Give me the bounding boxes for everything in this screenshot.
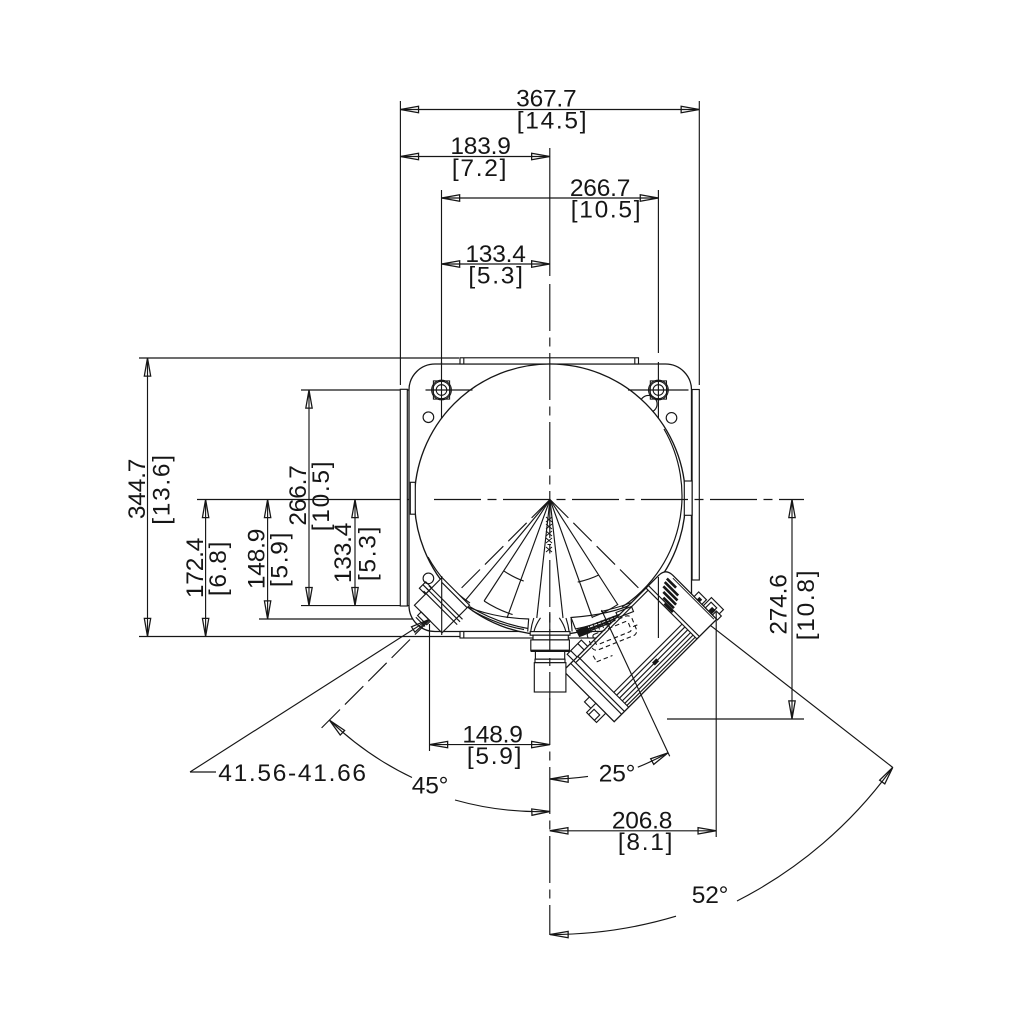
inner arc bottom-left xyxy=(428,557,470,603)
dim 274.6 extension bottom xyxy=(667,718,804,720)
svg-text:[5.9]: [5.9] xyxy=(467,743,523,770)
ray 52deg (from center, to arc) xyxy=(700,617,893,767)
dim 344.7 extension top xyxy=(139,357,459,359)
svg-text:344.7: 344.7 xyxy=(124,459,151,519)
svg-text:[5.3]: [5.3] xyxy=(355,525,382,581)
dim 206.8 extension xyxy=(715,612,717,837)
beam arc right r121 xyxy=(593,604,618,617)
svg-text:[5.3]: [5.3] xyxy=(468,262,524,289)
main circle (rotating head) xyxy=(415,364,686,635)
motor side tab lower-left xyxy=(567,640,588,661)
dim 133.4 left line xyxy=(354,500,356,606)
dim 206.8 line xyxy=(550,830,716,832)
dim 274.6 line xyxy=(791,500,793,720)
bottom mounting strip xyxy=(460,632,639,639)
dim 172.4 line xyxy=(205,500,207,637)
mount step solid bits xyxy=(577,627,591,637)
svg-text:[5.9]: [5.9] xyxy=(267,531,294,587)
dim 266.7 top extension lines xyxy=(441,190,443,380)
dim 183.9 line xyxy=(400,156,549,158)
dim 133.4 top line xyxy=(442,263,550,265)
dim 183.9 extension line center xyxy=(549,148,551,276)
small hole top-left xyxy=(423,412,434,423)
beam ray 6deg right xyxy=(550,500,563,619)
label scribble xyxy=(653,579,687,613)
dimension texts xyxy=(124,86,820,910)
beam ray 45deg right (dashed short) xyxy=(550,500,655,605)
svg-text:[10.8]: [10.8] xyxy=(793,569,820,641)
beam envelope arm right (white band) xyxy=(571,602,640,630)
svg-text:274.6: 274.6 xyxy=(766,574,793,634)
beam arc left r85 xyxy=(504,571,524,581)
dim 266.7 left line xyxy=(308,390,310,606)
inner arc right (thick edge) xyxy=(622,429,682,607)
beam ray 33deg right xyxy=(550,500,618,606)
beam ray 6deg left xyxy=(537,500,550,619)
svg-text:52°: 52° xyxy=(692,882,728,909)
arm lower stripe (hatched) xyxy=(577,610,635,636)
svg-text:[14.5]: [14.5] xyxy=(517,108,589,135)
beam ray 40deg left xyxy=(462,500,550,605)
motor hidden flange (dashed) xyxy=(584,613,646,662)
svg-text:133.4: 133.4 xyxy=(330,523,357,583)
shaft block lower-left xyxy=(403,572,473,642)
right side strip xyxy=(692,390,699,581)
beam arc right r90 xyxy=(578,575,599,582)
dim 367.7 extension line left xyxy=(399,101,401,385)
dim 367.7 line xyxy=(400,109,699,111)
main body housing xyxy=(409,364,692,632)
dim 266.7 top line xyxy=(442,197,659,199)
dim 266.7/133.4 left extension bottom xyxy=(301,605,575,607)
serial text vertical xyxy=(546,517,552,552)
dim 344.7 extension bottom xyxy=(139,636,460,638)
dim 266.7 left extension top (to bolt) xyxy=(301,389,473,391)
dim 367.7 extension line right xyxy=(698,101,700,385)
svg-text:[10.5]: [10.5] xyxy=(571,196,643,223)
dim 148.9 bottom line xyxy=(430,744,550,746)
motor mount centerline segment xyxy=(657,577,659,638)
small hole bottom-left xyxy=(423,573,434,584)
horizontal centerline xyxy=(434,499,804,501)
beam envelope left outer xyxy=(470,607,529,629)
funnel bell xyxy=(528,618,572,632)
beam ray 33deg left xyxy=(484,500,550,602)
angle arc 25deg xyxy=(550,776,588,779)
svg-text:[10.5]: [10.5] xyxy=(308,460,335,532)
bolt M2 top-right xyxy=(628,362,689,419)
svg-text:41.56-41.66: 41.56-41.66 xyxy=(218,760,367,787)
shaft block crosshair xyxy=(441,576,443,635)
svg-text:[13.6]: [13.6] xyxy=(149,453,176,525)
beam ray 20deg left xyxy=(507,500,550,619)
centerline over connector xyxy=(549,612,551,700)
dim 148.9 left line xyxy=(267,500,269,620)
left side strip xyxy=(400,389,407,606)
svg-text:25°: 25° xyxy=(599,760,635,787)
svg-text:[8.1]: [8.1] xyxy=(618,829,674,856)
svg-text:45°: 45° xyxy=(412,772,448,799)
motor top cap bumps xyxy=(694,592,706,604)
beam ray 45deg left (dashed) xyxy=(321,500,550,729)
dim 344.7 line xyxy=(147,358,149,637)
top mounting strip xyxy=(460,358,639,364)
bolt M1 top-left xyxy=(426,362,473,419)
hidden hole behind right bolt xyxy=(640,395,657,412)
dim 148.9 extension bottom xyxy=(259,618,425,620)
connector stack bottom xyxy=(530,632,570,692)
beam envelope to funnel left xyxy=(462,605,529,620)
dim 148.9 bottom extension xyxy=(429,624,431,751)
right clamp tab xyxy=(684,481,692,515)
centerline extension left xyxy=(197,499,434,501)
leader 41.56-41.66 xyxy=(190,771,216,773)
small hole top-right xyxy=(666,413,677,424)
left clamp tab xyxy=(410,482,415,514)
beam envelope left inner xyxy=(472,611,524,630)
svg-text:[6.8]: [6.8] xyxy=(205,540,232,596)
svg-text:[7.2]: [7.2] xyxy=(452,155,508,182)
motor assembly 45deg lower-right xyxy=(548,554,726,732)
ray 25deg (over motor) xyxy=(602,610,670,756)
beam arc left r121 xyxy=(484,601,512,615)
angle arc 52deg xyxy=(550,916,676,934)
beam ray 20deg right xyxy=(550,500,593,619)
motor bottom cap bumps xyxy=(584,697,596,709)
vertical centerline xyxy=(549,284,551,935)
angle arc 45deg xyxy=(329,720,412,777)
